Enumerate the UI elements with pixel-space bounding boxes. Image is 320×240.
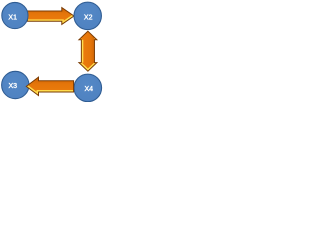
wire: double arrow X2 to X4 (vertical) — [79, 31, 97, 71]
node X4 — [74, 74, 102, 102]
wire: arrow X1 to X2 (top, pointing right) — [28, 8, 75, 25]
wire: arrow X4 to X3 (bottom, pointing left) — [26, 77, 73, 95]
node X1 — [2, 2, 28, 28]
svg-text:X2: X2 — [84, 15, 93, 22]
svg-text:X1: X1 — [8, 14, 17, 21]
svg-text:X4: X4 — [85, 86, 94, 93]
svg-text:X3: X3 — [9, 83, 18, 90]
node X3 — [2, 71, 29, 98]
node X2 — [74, 2, 102, 30]
